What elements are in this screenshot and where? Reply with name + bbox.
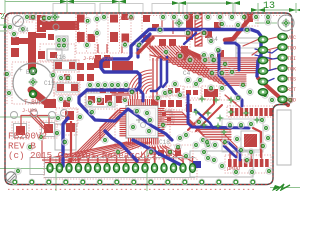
svg-text:VUC: VUC: [287, 35, 296, 41]
svg-text:D4: D4: [121, 96, 127, 102]
svg-text:13: 13: [263, 1, 275, 12]
svg-text:C18: C18: [159, 139, 170, 146]
svg-text:TDI: TDI: [287, 56, 296, 62]
svg-text:TMS: TMS: [287, 77, 296, 83]
svg-text:TCK: TCK: [287, 66, 296, 72]
svg-text:2: 2: [1, 14, 5, 22]
svg-text:BUZ: BUZ: [26, 69, 37, 76]
svg-text:T-BUZ: T-BUZ: [24, 99, 42, 106]
svg-text:C4: C4: [183, 70, 191, 77]
svg-text:μMOD: μMOD: [227, 165, 241, 172]
svg-text:J-FAN2+FAN: J-FAN2+FAN: [83, 56, 113, 62]
svg-text:C15: C15: [44, 80, 55, 87]
svg-text:C24: C24: [18, 27, 29, 34]
svg-text:RST: RST: [287, 87, 296, 93]
svg-text:J-U99: J-U99: [22, 108, 37, 114]
svg-text:GND: GND: [287, 98, 296, 104]
svg-text:C14: C14: [207, 36, 218, 43]
svg-text:C16: C16: [55, 54, 66, 61]
svg-text:(c) 2015 Collins Research 2: (c) 2015 Collins Research 2: [8, 150, 157, 161]
svg-text:C9: C9: [30, 15, 36, 21]
svg-text:J-FAN: J-FAN: [119, 16, 134, 22]
svg-text:TDO: TDO: [287, 45, 296, 51]
